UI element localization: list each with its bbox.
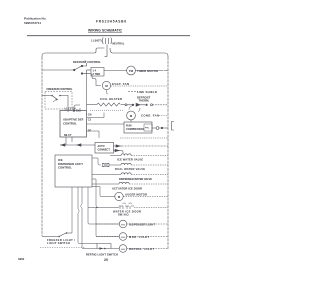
wire dispenser drop C bbox=[81, 187, 85, 249]
line cord plug P1 bbox=[102, 38, 111, 57]
svg-text:5995372711: 5995372711 bbox=[24, 21, 41, 25]
wire to evap fan bbox=[90, 74, 101, 86]
svg-text:ACTUATOR ICE DOOR: ACTUATOR ICE DOOR bbox=[112, 186, 142, 190]
svg-text:M: M bbox=[118, 195, 121, 199]
svg-text:COND. FAN: COND. FAN bbox=[141, 114, 159, 118]
svg-text:CN: CN bbox=[88, 114, 92, 117]
svg-text:L1 (HOT): L1 (HOT) bbox=[91, 40, 102, 43]
wire auger feeder bbox=[92, 187, 115, 197]
wire connector out bottom bbox=[114, 149, 124, 153]
switch S5 freezer light switch bbox=[42, 232, 75, 245]
wire freezer control to board pin bbox=[67, 109, 69, 112]
svg-text:EVAP. FAN: EVAP. FAN bbox=[112, 82, 129, 86]
svg-text:CONTROL: CONTROL bbox=[63, 122, 77, 126]
wire neutral branch bbox=[110, 48, 168, 57]
svg-text:CONTROL: CONTROL bbox=[58, 166, 72, 170]
svg-text:Publication No.: Publication No. bbox=[24, 17, 47, 21]
svg-text:M: M bbox=[130, 114, 133, 118]
svg-text:THERM.: THERM. bbox=[139, 99, 150, 103]
thermostat S2 freezer control box bbox=[42, 92, 72, 110]
svg-text:PTC: PTC bbox=[145, 128, 150, 130]
wire dispenser drop D bbox=[88, 187, 119, 224]
header rule bbox=[27, 35, 190, 37]
wire board pin CN bbox=[87, 113, 104, 118]
svg-text:AUGER MOTOR: AUGER MOTOR bbox=[125, 193, 147, 197]
compressor U2 box bbox=[124, 122, 152, 133]
wire board bottom pins bbox=[66, 137, 72, 145]
svg-text:WIRING SCHEMATIC: WIRING SCHEMATIC bbox=[88, 28, 123, 32]
switch S6 refrig light switch bbox=[85, 244, 118, 257]
solenoid L1 ice maker water valve bbox=[110, 154, 168, 162]
svg-text:3 TMR: 3 TMR bbox=[93, 73, 101, 76]
defrost thermostat label bbox=[137, 96, 151, 103]
svg-text:LINE SHIELD: LINE SHIELD bbox=[137, 90, 157, 94]
board right pin labels bbox=[88, 114, 92, 133]
wire fuse feeder bbox=[92, 158, 101, 165]
lamp DS3 refrig light bbox=[112, 245, 168, 253]
connector U3 box bbox=[95, 143, 114, 154]
lamp DS2 mod light bbox=[96, 233, 168, 241]
svg-text:REFRIG LIGHT SWITCH: REFRIG LIGHT SWITCH bbox=[86, 252, 118, 256]
wire left rail L1 bus bbox=[41, 57, 43, 236]
wire defrost therm to neutral rail bbox=[153, 104, 169, 106]
motor M2 evap fan bbox=[102, 81, 110, 89]
wire evap fan to neutral rail bbox=[111, 85, 168, 87]
motor M4 auger motor bbox=[115, 192, 168, 200]
wire feeder from defrost switch down bbox=[86, 74, 88, 110]
fuse F1 bbox=[103, 163, 110, 166]
motor M1 timer motor bbox=[127, 66, 136, 75]
wire evap fan bottom stub bbox=[107, 90, 108, 94]
wire dispenser drop A bbox=[71, 187, 73, 233]
solenoid L3 dispenser water valve bbox=[92, 173, 168, 181]
svg-text:C3: C3 bbox=[88, 119, 92, 122]
svg-text:NE CT: NE CT bbox=[64, 134, 72, 137]
wire board top pins bbox=[74, 105, 80, 112]
motor M3 cond fan bbox=[127, 111, 136, 120]
switch S4 water ice door bbox=[88, 203, 168, 217]
wire mod light feeder bbox=[96, 208, 119, 237]
wire right rail neutral bus bbox=[167, 57, 169, 249]
line shield label bbox=[128, 90, 157, 94]
wire connector out top bbox=[114, 145, 169, 147]
svg-text:NEUTRAL: NEUTRAL bbox=[113, 43, 125, 46]
solenoid L4 actuator ice door bbox=[92, 182, 168, 190]
wire dispenser drop B bbox=[78, 187, 97, 244]
wire cond fan drop bbox=[130, 120, 132, 122]
wire terminal row to connector bbox=[60, 144, 95, 146]
control board U1 adaptive defrost bbox=[60, 111, 87, 138]
title WIRING SCHEMATIC bbox=[88, 28, 123, 32]
switch S1 defrost control contacts bbox=[73, 63, 91, 74]
svg-text:ICE WATER VALVE: ICE WATER VALVE bbox=[117, 158, 143, 162]
svg-text:MOD. LIGHT: MOD. LIGHT bbox=[129, 235, 149, 239]
svg-text:CONNECT: CONNECT bbox=[98, 148, 111, 151]
wire cond fan to rail bbox=[159, 115, 168, 117]
svg-text:20: 20 bbox=[104, 258, 108, 262]
wire freezer bottom dashed bbox=[40, 247, 85, 249]
wire cond fan stub bbox=[138, 108, 140, 112]
svg-text:COIL HEATER: COIL HEATER bbox=[100, 97, 122, 101]
svg-text:SW. N.O.: SW. N.O. bbox=[118, 213, 129, 217]
resistor R1 coil heater bbox=[87, 103, 126, 106]
svg-text:FREEZER CONTROL: FREEZER CONTROL bbox=[47, 87, 73, 91]
svg-text:DUAL WATER VALVE: DUAL WATER VALVE bbox=[115, 167, 145, 171]
wire defrost row from left rail bbox=[42, 69, 73, 71]
svg-text:REFRIG. LIGHT: REFRIG. LIGHT bbox=[129, 247, 154, 251]
header publication text bbox=[24, 17, 47, 26]
wire compressor shield dashed bbox=[120, 137, 168, 139]
svg-text:TIMER MOTOR: TIMER MOTOR bbox=[137, 69, 158, 73]
dispenser control box U4 bbox=[55, 155, 92, 187]
svg-text:M: M bbox=[105, 84, 108, 88]
overload protector OL1 bbox=[152, 127, 168, 130]
timer cam box bbox=[91, 68, 104, 77]
svg-text:DISPENSER LIGHT: DISPENSER LIGHT bbox=[129, 222, 155, 226]
wire board pin DF bbox=[87, 131, 99, 138]
svg-text:COMPRESSOR: COMPRESSOR bbox=[126, 128, 144, 131]
svg-text:TM: TM bbox=[129, 69, 134, 73]
wire heater shield dashed bbox=[90, 109, 123, 111]
connector bracket J1 bbox=[172, 122, 175, 131]
wire switch row feeder bbox=[92, 179, 98, 208]
solenoid L2 dual water valve bbox=[109, 163, 168, 171]
svg-text:DISPENSER WATER VALVE: DISPENSER WATER VALVE bbox=[119, 177, 152, 181]
svg-text:S962: S962 bbox=[18, 257, 25, 261]
svg-text:LIGHT SWITCH: LIGHT SWITCH bbox=[47, 241, 70, 245]
wire L1 hot branch bbox=[42, 48, 105, 57]
svg-text:DEFROST CONTROL: DEFROST CONTROL bbox=[73, 60, 101, 64]
lamp DS1 dispenser light bbox=[96, 220, 168, 228]
thermostat S3 defrost thermostat bbox=[125, 103, 153, 106]
wire timer motor to neutral rail bbox=[135, 70, 168, 72]
wire timer box to timer motor bbox=[104, 70, 127, 72]
svg-text:FRS23H5ASB6: FRS23H5ASB6 bbox=[96, 20, 126, 24]
wire cond fan row bbox=[87, 123, 124, 125]
wire defrost branch down bbox=[129, 106, 133, 110]
